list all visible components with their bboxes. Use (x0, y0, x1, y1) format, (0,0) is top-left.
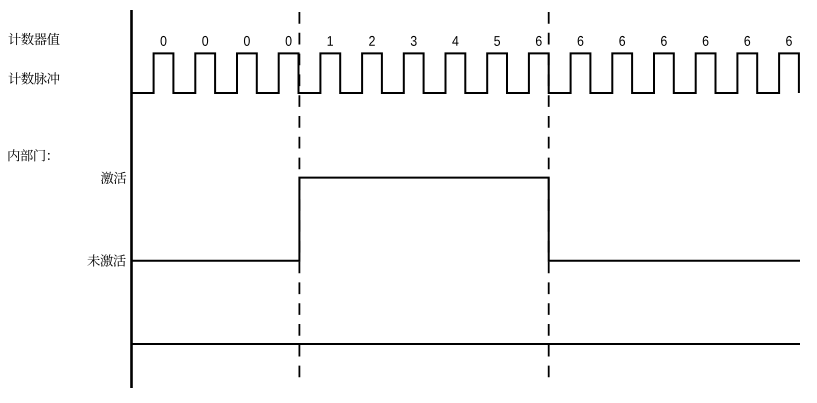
value label 0 (pulse 3) (244, 36, 250, 46)
bottom baseline wire (132, 343, 801, 345)
value label 6 (pulse 13) (661, 36, 667, 46)
value label 6 (pulse 16) (786, 36, 792, 46)
value label 2 (pulse 6) (369, 36, 375, 46)
text 未激活 (not activated) (87, 254, 125, 266)
value label 6 (pulse 15) (744, 36, 750, 46)
value label 4 (pulse 8) (452, 36, 458, 46)
dashed marker line 1 (gate opens) (298, 12, 300, 386)
text 计数脉冲 (count pulse) (9, 72, 60, 84)
value label 0 (pulse 4) (286, 36, 292, 46)
dashed marker line 2 (gate closes) (548, 12, 550, 386)
value label 6 (pulse 11) (578, 36, 584, 46)
text 激活 (activated) (101, 172, 126, 184)
value label 6 (pulse 12) (619, 36, 625, 46)
text 计数器值 (counter value) (9, 33, 60, 45)
text 内部门： (internal gate:) (9, 149, 50, 161)
value label 5 (pulse 9) (494, 36, 500, 46)
value label 3 (pulse 7) (411, 36, 417, 46)
value label 6 (pulse 14) (703, 36, 709, 46)
value label 6 (pulse 10) (536, 36, 542, 46)
value label 1 (pulse 5) (328, 36, 333, 46)
internal gate waveform (low, high between markers, low) (132, 178, 801, 261)
clock pulse waveform (16 pulses) (132, 53, 799, 93)
value label 0 (pulse 2) (202, 36, 208, 46)
vertical axis line (130, 10, 133, 388)
value label 0 (pulse 1) (161, 36, 167, 46)
